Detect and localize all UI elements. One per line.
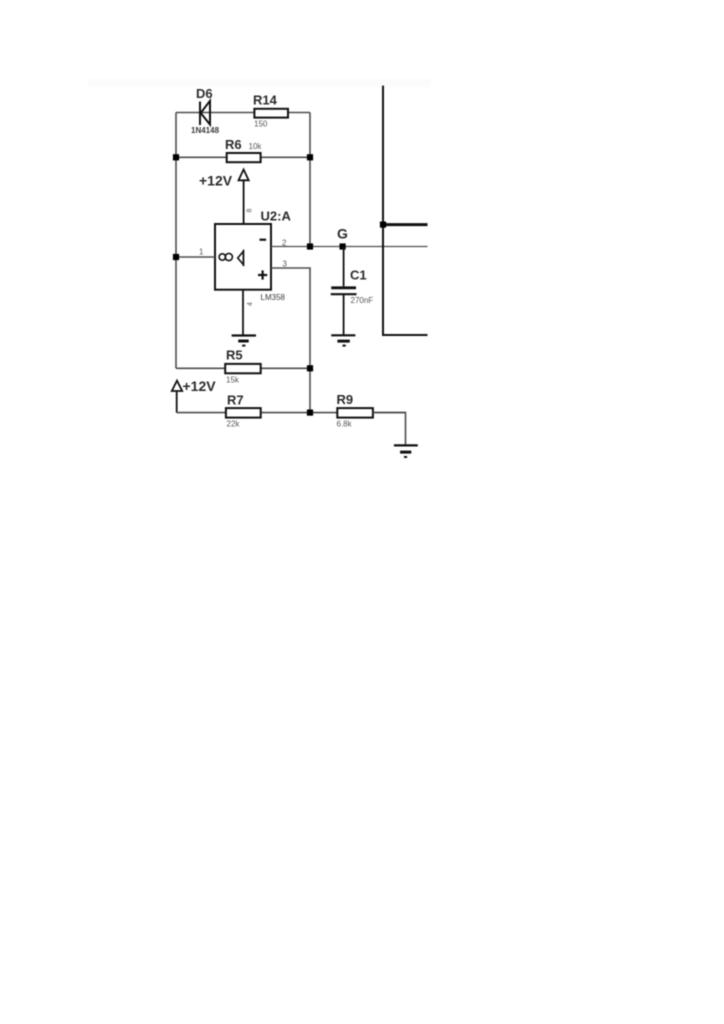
wire R5 row — [176, 367, 310, 369]
svg-text:R6: R6 — [225, 137, 242, 152]
diode D6 — [200, 101, 210, 125]
svg-text:150: 150 — [254, 120, 268, 129]
op-amp internal symbol — [219, 250, 243, 266]
junction dot R6 left — [173, 154, 179, 160]
junction dot R6 right — [307, 154, 313, 160]
svg-text:U2:A: U2:A — [261, 209, 292, 224]
power +12V opamp arrow — [239, 170, 249, 181]
wire R7 row — [177, 412, 406, 414]
wire pin 2 / node G horizontal — [271, 246, 428, 248]
wire pin 4 vertical — [242, 290, 244, 336]
wire +12V to R7 row — [176, 391, 178, 413]
svg-text:4: 4 — [247, 302, 254, 306]
svg-text:15k: 15k — [226, 376, 240, 385]
ground opamp — [232, 336, 256, 346]
svg-text:+12V: +12V — [199, 173, 233, 189]
svg-text:1N4148: 1N4148 — [191, 126, 220, 135]
wire pin 1 — [176, 256, 215, 258]
svg-text:22k: 22k — [227, 419, 241, 428]
svg-text:G: G — [337, 226, 348, 242]
svg-text:1: 1 — [199, 248, 204, 257]
resistor R14 — [254, 109, 288, 118]
wire top rail horizontal — [176, 112, 310, 114]
crop top faint band — [88, 79, 430, 87]
wire pin 8 vertical — [243, 180, 245, 224]
svg-text:8: 8 — [247, 209, 254, 213]
svg-text:R9: R9 — [337, 392, 354, 407]
svg-text:2: 2 — [282, 239, 287, 248]
svg-text:10k: 10k — [249, 142, 263, 151]
svg-text:6.8k: 6.8k — [337, 419, 353, 428]
ground C1 — [331, 335, 355, 345]
wire right branch vertical (top to G wire) — [309, 113, 311, 247]
junction dot node G — [340, 243, 346, 249]
svg-text:R14: R14 — [253, 93, 278, 108]
power +12V lower arrow — [172, 381, 182, 391]
wire pin 3 — [271, 268, 310, 413]
resistor R5 — [225, 364, 261, 373]
wire left rail vertical — [175, 113, 177, 369]
wire right tall vertical — [383, 86, 428, 335]
op-amp U2:A box — [215, 224, 271, 290]
junction dot right branch — [380, 222, 386, 228]
resistor R7 — [226, 408, 261, 418]
ground R9 — [394, 445, 418, 457]
capacitor C1 — [331, 288, 357, 294]
junction dot pin1 left rail — [173, 254, 179, 260]
resistor R9 — [337, 408, 373, 418]
wire thick branch right — [383, 223, 428, 226]
resistor R6 — [227, 153, 261, 162]
junction dot R7 — [307, 410, 313, 416]
svg-text:+12V: +12V — [183, 378, 217, 394]
junction dot R5 right — [307, 365, 313, 371]
capacitor C1 wire bottom — [343, 294, 345, 335]
svg-text:D6: D6 — [196, 86, 213, 101]
junction dot pin2 at x310 — [307, 243, 313, 249]
capacitor C1 wire top — [343, 247, 345, 287]
wire R9 to ground — [373, 413, 406, 446]
op-amp minus sign — [260, 239, 267, 241]
wire R6 row — [176, 156, 310, 158]
svg-text:LM358: LM358 — [261, 293, 286, 302]
svg-text:R5: R5 — [226, 348, 243, 363]
svg-text:R7: R7 — [227, 393, 244, 408]
svg-text:C1: C1 — [350, 268, 367, 283]
svg-text:3: 3 — [283, 260, 288, 269]
svg-text:270nF: 270nF — [351, 296, 374, 305]
op-amp plus sign — [258, 270, 267, 279]
